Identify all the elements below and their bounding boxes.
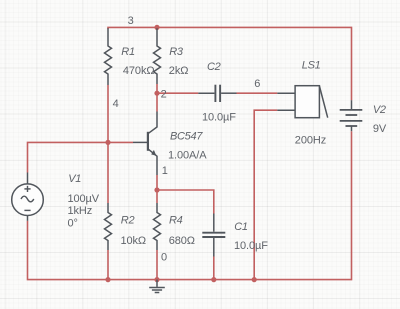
svg-text:C1: C1 — [234, 221, 248, 233]
svg-text:R4: R4 — [169, 214, 183, 226]
svg-text:470kΩ: 470kΩ — [123, 65, 155, 77]
svg-text:C2: C2 — [207, 61, 221, 73]
svg-text:V1: V1 — [68, 173, 81, 185]
svg-text:200Hz: 200Hz — [295, 134, 326, 146]
svg-text:BC547: BC547 — [170, 131, 203, 143]
svg-text:R1: R1 — [121, 46, 135, 58]
svg-text:3: 3 — [128, 15, 134, 27]
svg-text:R3: R3 — [169, 46, 184, 58]
svg-text:V2: V2 — [373, 104, 386, 116]
svg-text:4: 4 — [113, 98, 119, 110]
svg-text:10.0µF: 10.0µF — [234, 240, 268, 252]
svg-text:2: 2 — [161, 89, 167, 101]
svg-text:6: 6 — [254, 78, 260, 90]
svg-text:LS1: LS1 — [302, 60, 321, 72]
svg-text:680Ω: 680Ω — [169, 235, 195, 247]
svg-text:10kΩ: 10kΩ — [121, 235, 147, 247]
svg-text:1kHz: 1kHz — [68, 205, 93, 217]
svg-text:10.0µF: 10.0µF — [202, 112, 236, 124]
svg-text:2kΩ: 2kΩ — [169, 65, 189, 77]
svg-text:R2: R2 — [121, 214, 135, 226]
svg-text:0: 0 — [161, 252, 167, 264]
svg-text:0°: 0° — [68, 218, 78, 230]
svg-text:9V: 9V — [373, 123, 387, 135]
svg-text:100µV: 100µV — [68, 193, 100, 205]
svg-text:1.00A/A: 1.00A/A — [168, 149, 207, 161]
svg-text:1: 1 — [162, 165, 168, 177]
